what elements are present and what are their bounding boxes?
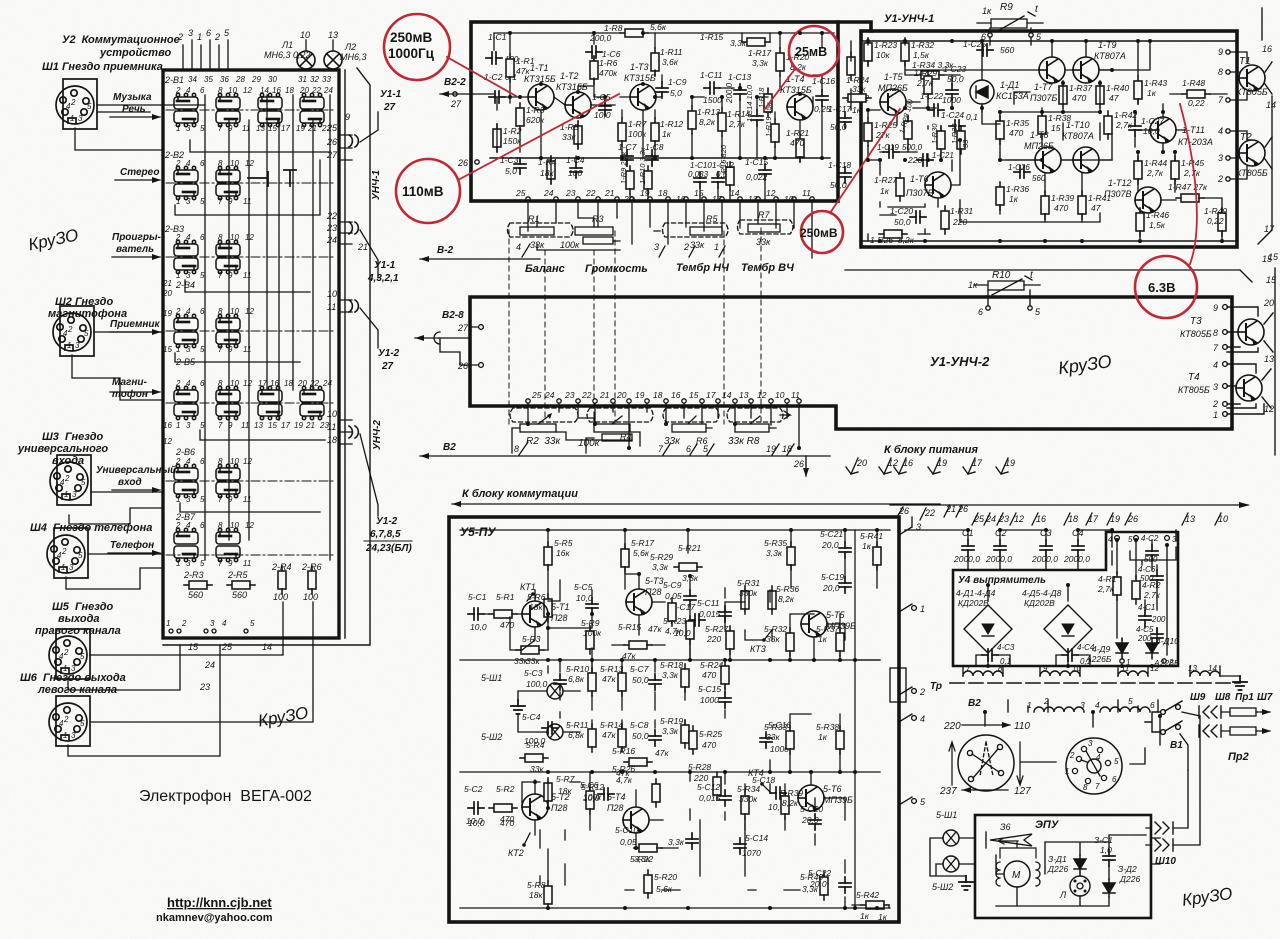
boundary lines right (845, 268, 1275, 455)
resistor 2-R4 100 (278, 566, 286, 594)
power wires (905, 530, 1176, 666)
right edge pins and chevrons (339, 135, 352, 444)
capacitor 5-С8 50,0 (649, 730, 661, 746)
motor M (1004, 861, 1030, 887)
resistor 1-R1 47k (506, 54, 514, 82)
resistor 4-R2 2,7k (1132, 576, 1140, 604)
resistor 4-R1 2,7k (1113, 572, 1121, 600)
potentiometer R3 (Громкость) (575, 227, 613, 235)
capacitor 5-С1 10,0 (468, 608, 484, 620)
resistor 1-R3 620k (516, 103, 524, 131)
resistor 1-R18 (rot) (764, 89, 772, 117)
chevron pairs (1199, 706, 1221, 737)
resistor 5-R26 4,7к (652, 779, 660, 807)
capacitor 5-С12 0,015 (719, 790, 731, 806)
capacitor 1-C4 100 (570, 162, 582, 178)
resistor 5-R1 470 (489, 610, 517, 618)
capacitor 1-C25 560 (977, 44, 993, 56)
wire junction dots (508, 31, 1224, 910)
resistor 1-R45 2,7k (1171, 156, 1179, 184)
capacitor 1-C19 500,0 (883, 146, 899, 158)
connector Ш4 (47, 528, 88, 578)
capacitor 4-C4 0,1 (1062, 649, 1078, 661)
capacitor 5-С20 20,0 (809, 814, 821, 830)
capacitor 5-С4 100,0 (542, 722, 558, 734)
resistor 5-R16 47к (624, 758, 652, 766)
capacitor 5-С5 10,0 (586, 598, 598, 614)
box (449, 517, 899, 922)
flags row (897, 505, 1221, 525)
resistor 1-R7 100k (618, 118, 626, 146)
transistor 5-Т3 П28 (626, 589, 652, 615)
resistor 1-R39 470 (1041, 191, 1049, 219)
connector Ш5 (49, 629, 90, 679)
resistor 5-R29 3,3к (668, 598, 676, 626)
EPU wires (996, 835, 1160, 906)
connector Ш6 (49, 696, 90, 746)
fuse Пр1 (1230, 708, 1256, 716)
resistor 1-R9 2,2k (rotated label) (626, 166, 634, 194)
capacitor 4-C5 200 (1151, 628, 1163, 644)
transistor 5-Т5 МП39Б (801, 611, 827, 637)
resistor 1-R31 220 (941, 206, 949, 234)
potentiometer R6 33k (663, 408, 719, 422)
resistor 1-R38 15 (1038, 111, 1046, 139)
resistor 5-R4 33к (520, 754, 548, 762)
red note 6.3В (1135, 256, 1197, 318)
resistor 5-R31 330к (741, 586, 749, 614)
resistor 5-R41 1к (873, 542, 881, 570)
resistor 5-R5 16к (544, 542, 552, 570)
red note 110мВ (396, 159, 460, 223)
capacitor 1-C9 5,0 (656, 82, 668, 98)
resistor 5-R36 8,2к (768, 586, 776, 614)
resistor 5-R21 3,3к (674, 563, 702, 571)
resistor 5-R40 3,3к (820, 872, 828, 900)
dashed gang lines down to УНЧ-2 (509, 228, 761, 424)
wires from connectors to box (66, 105, 313, 756)
lamp Л1 (297, 51, 315, 69)
resistor 5-R35 3,3к (787, 542, 795, 570)
resistor 1-R2 150k (493, 124, 501, 152)
primary coils (1034, 707, 1150, 712)
capacitor 1-C15 0,022 (759, 164, 771, 180)
capacitor 4-C3 0,1 (982, 649, 998, 661)
resistor 5-R39 8,2к (781, 791, 789, 819)
T1/T2 wires (1230, 52, 1272, 179)
capacitor 1-C20 50,0 (910, 211, 926, 223)
capacitor 1-C3 (514, 158, 526, 174)
potentiometer R7 (Тембр ВЧ) (738, 220, 794, 234)
T3/T4 wires (1227, 307, 1273, 414)
capacitor 5-С10 0,05 (686, 833, 698, 849)
resistor 5-R13 47к (618, 668, 626, 696)
capacitor 5-С3 100,0 (554, 674, 566, 690)
capacitor 5-С21 20,0 (839, 542, 851, 558)
resistor 5-R3 33к (516, 646, 544, 654)
resistor 1-R44 2,7k (1134, 156, 1142, 184)
capacitor 4-C1 200 (1139, 610, 1151, 626)
resistor 1-R21 470 (796, 134, 804, 162)
resistor 5-R14 47к (618, 724, 626, 752)
capacitor 5-С22 20,0 (839, 877, 851, 893)
transistor 1-T11 (1150, 117, 1176, 143)
capacitor 5-С9 0,05 (684, 590, 696, 606)
boundary step between boxes (838, 22, 871, 31)
chevrons Ш10 (1151, 822, 1173, 851)
switch B1 and fuses (1145, 701, 1182, 734)
main switch box (163, 70, 339, 638)
right edge pins & T3 T4 (1223, 305, 1228, 417)
capacitor 1-C13 (734, 84, 746, 100)
resistor 5-R24 470 (721, 661, 729, 689)
resistor 5-R23 4,7к (686, 616, 694, 644)
capacitor 5-С11 0,015 (719, 606, 731, 622)
ground (511, 700, 525, 714)
bus line with arrow (890, 504, 1248, 506)
resistor 5-R10 6,8к (588, 668, 596, 696)
resistor 5-R17 5,6к (621, 544, 629, 572)
capacitor 1-C16 0,25 (816, 90, 828, 106)
capacitor 5-С7 50,0 (649, 674, 661, 690)
resistor 1-R29 2,7k (924, 71, 932, 99)
resistor 1-R41 47 (1078, 191, 1086, 219)
resistor 1-R10 3,3k (644, 166, 652, 194)
resistor 1-R35 470 (996, 116, 1004, 144)
red note 25мВ (789, 26, 839, 76)
potentiometer R5 (Тембр НЧ) (663, 223, 729, 237)
bottom pins row (526, 399, 801, 403)
resistor 1-R13 8,2k (688, 106, 696, 134)
capacitor 1-C17 50,0 (left of box) (839, 112, 851, 128)
connector Ш3 (50, 455, 91, 505)
flag У1-1 27 (360, 112, 378, 142)
diode 4-D9 A226B (1116, 639, 1128, 657)
resistor 5-R12 100к (586, 786, 594, 814)
lamp Л2 (324, 51, 342, 69)
capacitor 5-С17 10,0 (689, 614, 705, 626)
resistor 5-R22 3,3к (634, 844, 662, 852)
transistor 5-Т1 П28 (522, 601, 548, 627)
capacitor 1-C14 10,0 (rot) (751, 110, 763, 126)
resistor 5-R11 6,8к (588, 724, 596, 752)
rectifier box U4 (953, 532, 1178, 666)
outer boundary polygon (163, 68, 370, 645)
red note 250мВ (801, 211, 843, 253)
capacitor 1-C21 (917, 154, 933, 166)
capacitor 1-C7 (621, 150, 633, 166)
resistor 5-R33 33к (786, 726, 794, 754)
resistor 1-R36 1k (996, 182, 1004, 210)
capacitor 5-С15 1000 (719, 692, 731, 708)
resistor 5-R25 470 (689, 726, 697, 754)
EPU box (975, 815, 1151, 918)
potentiometer R2 33k (510, 408, 578, 422)
horizontal interconnect wires (175, 140, 330, 512)
resistor 1-R17 3,3k (776, 48, 784, 76)
potentiometer R1 (Баланс) (508, 223, 574, 237)
resistor 1-R27 1k (896, 173, 904, 201)
diode 1-D1 KC153A (970, 80, 994, 104)
potentiometer R8 33k (727, 408, 783, 422)
resistor 1-R43 1k (1134, 76, 1142, 104)
flag У1-1 4321 (360, 230, 378, 278)
connector Ш2 (53, 306, 94, 356)
transistor 5-Т6 МП39Б (798, 785, 824, 811)
capacitor 5-С19 20,0 (839, 577, 851, 593)
resistor 1-R46 1,5k (1136, 208, 1144, 236)
resistor 1-R32 1,5k (901, 38, 909, 66)
resistor 1-R28 100 (rot) (904, 116, 912, 144)
capacitor 1-C10 0,033 (694, 172, 706, 188)
resistor 5-R32 33к (786, 628, 794, 656)
resistor 1-R33 33 (rot) (957, 126, 965, 154)
resistor 5-R7 18к (544, 778, 552, 806)
resistor 5-R18 3,3к (681, 664, 689, 692)
resistor 5-R27 220 (726, 626, 734, 654)
resistor 2-R6 100 (308, 566, 316, 594)
right edge pins u5pu (890, 517, 916, 805)
capacitor 4-C6 500 (1151, 570, 1163, 586)
resistor 5-R38 1к (836, 726, 844, 754)
resistor 2-R3 560 (184, 581, 212, 589)
resistor 5-R28 220 (713, 772, 721, 800)
ground at EPU (959, 876, 973, 890)
resistor 1-R4 18k (547, 156, 555, 184)
potentiometer R4 100k (587, 408, 653, 422)
capacitor 5-С14 1070 (734, 838, 746, 854)
top stubs with numbers (183, 40, 333, 70)
resistor 5-R34 330к (741, 791, 749, 819)
capacitor 1-C12 0,5 (712, 172, 724, 188)
resistor 1-R40 47 (1096, 81, 1104, 109)
resistor 5-R42 1к (861, 901, 889, 909)
capacitor 5-С18 10,0 (770, 787, 786, 799)
resistor 1-R30 (rot) (937, 126, 945, 154)
wires in top box (490, 33, 834, 201)
resistor 1-R37 470 (1059, 81, 1067, 109)
transistor 5-Т4 П28 (623, 807, 649, 833)
pot wires to B2 line (512, 403, 799, 453)
lamp Л (1070, 876, 1090, 896)
capacitor 1-C24 0,1 (949, 120, 965, 132)
capacitor 1-C5 10,0 (599, 100, 611, 116)
resistor 1-R14 2,7k (718, 108, 726, 136)
capacitor 4-C2 500 (1146, 545, 1158, 561)
transistor 5-Т2 П28 (522, 794, 548, 820)
vertical bus wires inside box (205, 95, 330, 560)
connector Ш1 (56, 79, 97, 129)
resistor 5-R2 470 (489, 804, 517, 812)
capacitor 1-C8 (646, 150, 658, 166)
voltage selector socket (1066, 738, 1122, 794)
capacitor 1-C11 1500 (704, 82, 720, 94)
ground right (1233, 676, 1247, 690)
resistor 5-R37 1к (836, 628, 844, 656)
capacitor 5-С2 10,0 (468, 802, 484, 814)
box (470, 297, 1232, 429)
resistors 1-R24 33k 1-R22 1k (left edge) (847, 52, 855, 80)
box (861, 31, 1237, 247)
red note 250мВ 1000Гц (384, 14, 450, 80)
resistor 5-R20 5,6к (644, 870, 652, 898)
capacitor 1-C22 1000 (928, 104, 944, 116)
capacitor 1-C27 10,0 (1129, 120, 1141, 136)
resistor 5-R9 100к (586, 626, 594, 654)
fuse Пр2 (1230, 727, 1256, 735)
diode 4-D10 A226B (1146, 639, 1158, 657)
resistor 1-R16 820 (rot) (726, 162, 734, 190)
right edge pins (1226, 50, 1230, 181)
box (471, 22, 838, 201)
capacitor 5-С16 1000 (760, 732, 772, 748)
resistor 1-R6 470k (590, 56, 598, 84)
flag У1-2 6765 (360, 434, 378, 516)
pot wires (528, 201, 812, 258)
resistor 1-R42 2,7k (1104, 111, 1112, 139)
resistor 5-R8 18к (544, 881, 552, 909)
wire (471, 94, 520, 97)
resistor 1-R12 1k (651, 118, 659, 146)
capacitor 5-С6 10,0 (598, 788, 614, 800)
wire grid u5pu (460, 530, 890, 909)
resistor 1-R11 3,6k (651, 48, 659, 76)
resistor 1-R5 33k (574, 121, 582, 149)
resistor 1-R49 0,22 (1218, 208, 1226, 236)
bottom pins of top box (526, 197, 814, 201)
resistor 2-R5 560 (227, 581, 255, 589)
capacitor 1-C26 560 (1014, 166, 1030, 178)
node stub (248, 170, 296, 186)
wires around transformer (963, 666, 1220, 764)
pin 26 left (475, 160, 479, 164)
flag У1-2 27 (360, 308, 378, 348)
resistor 1-R23 10k (864, 38, 872, 66)
capacitor 1-C18 50,0 (left) (839, 167, 851, 183)
switch row link lines (166, 110, 336, 555)
wires unch1 (851, 41, 1235, 241)
pins above rectifier (1120, 659, 1124, 663)
resistor 5-R19 3,3к (681, 720, 689, 748)
rectifier sub-box raised section pins (1115, 536, 1120, 541)
resistor 5-R15 47к (624, 641, 652, 649)
resistor 1-R25 27k (864, 118, 872, 146)
resistor 1-R19 15k (rot) (771, 119, 779, 147)
resistor 5-R6 18к (544, 594, 552, 622)
